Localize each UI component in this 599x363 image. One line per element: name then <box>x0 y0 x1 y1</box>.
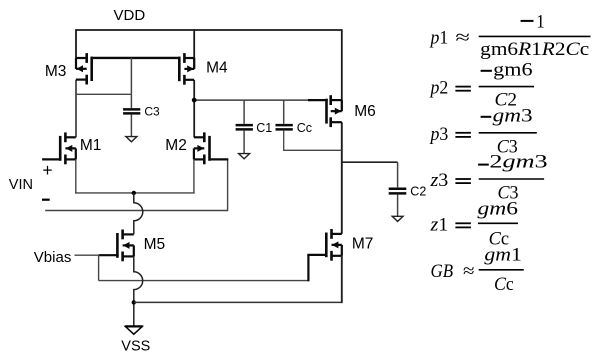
svg-text:M3: M3 <box>45 63 67 80</box>
wire minus line up to M2 gate <box>227 159 229 211</box>
wire M6 gate lead <box>308 99 328 101</box>
svg-text:Cc: Cc <box>494 274 514 295</box>
equation p2 <box>429 60 534 111</box>
svg-text:gm6: gm6 <box>478 198 519 219</box>
wire M7 source down <box>341 256 343 303</box>
svg-text:C3: C3 <box>144 104 160 118</box>
svg-text:z1: z1 <box>429 214 448 235</box>
wire Cc bottom lead to output <box>284 131 342 151</box>
svg-text:VIN: VIN <box>9 177 33 193</box>
wire M5 source down with hop <box>134 256 143 326</box>
node A junction <box>192 98 197 103</box>
wire M3 drain to gate link <box>76 93 132 95</box>
capacitor C2 <box>389 189 407 194</box>
svg-text:Vbias: Vbias <box>34 249 72 266</box>
label M1 <box>80 137 102 154</box>
ground VSS symbol <box>125 326 143 334</box>
svg-text:gm6: gm6 <box>493 60 532 81</box>
label C1 <box>256 121 272 135</box>
svg-text:p3: p3 <box>429 124 449 145</box>
wire Vbias branch down <box>98 255 100 281</box>
wire M4 source rail to VDD <box>193 29 195 69</box>
wire Vbias line to M7 <box>99 280 309 282</box>
label C2 <box>410 184 426 198</box>
transistor M6 <box>327 95 342 127</box>
svg-text:2gm3: 2gm3 <box>489 151 547 172</box>
svg-text:C1: C1 <box>256 121 272 135</box>
capacitor Cc <box>276 125 293 129</box>
wire tail line <box>75 192 195 194</box>
equation z1 <box>429 198 518 249</box>
svg-text:VSS: VSS <box>121 338 150 354</box>
capacitor C3 <box>123 109 140 113</box>
label Vbias <box>34 249 72 266</box>
svg-text:z3: z3 <box>429 170 448 191</box>
label M4 <box>206 60 228 77</box>
wire second stage rail M6 drain to M7 drain <box>341 122 343 234</box>
wire VDD rail <box>76 29 342 31</box>
label M6 <box>354 103 376 120</box>
svg-text:M6: M6 <box>354 103 376 120</box>
wire node A line to M6 gate <box>194 99 326 101</box>
wire C1 top lead <box>243 100 245 124</box>
transistor M1 <box>60 132 76 164</box>
transistor M2 <box>194 132 210 164</box>
wire VSS line to M7 source <box>134 301 342 303</box>
svg-text:M2: M2 <box>165 137 187 154</box>
svg-text:1: 1 <box>536 12 545 33</box>
ground C2 open arrow <box>392 216 403 221</box>
svg-text:C2: C2 <box>410 184 426 198</box>
power VDD label <box>114 7 146 24</box>
wire M6 source rail to VDD <box>341 29 343 111</box>
svg-text:M7: M7 <box>352 236 374 253</box>
label VIN <box>9 177 33 193</box>
ground C1 open arrow <box>239 154 250 159</box>
wire C1 bottom lead <box>243 131 245 154</box>
transistor M5 <box>117 230 133 262</box>
svg-text:M4: M4 <box>206 60 228 77</box>
svg-text:≈: ≈ <box>463 261 475 282</box>
equation p3 <box>429 106 537 158</box>
svg-text:p1: p1 <box>429 27 449 48</box>
wire gate line down to C3 <box>130 58 132 108</box>
svg-text:M1: M1 <box>80 137 102 154</box>
capacitor C1 <box>236 125 253 129</box>
wire C2 bottom lead <box>397 195 399 217</box>
wire Vbias step up to M7 gate <box>307 255 327 281</box>
equation GB <box>431 244 524 295</box>
svg-text:≈: ≈ <box>455 27 470 48</box>
label Cc <box>297 121 312 135</box>
svg-text:p2: p2 <box>429 78 449 99</box>
wire C3 bottom lead <box>130 115 132 137</box>
transistor M3 <box>76 53 92 84</box>
svg-text:gm1: gm1 <box>484 244 521 265</box>
ground C3 open arrow <box>126 137 137 142</box>
wire output line <box>342 161 398 163</box>
wire M2 gate lead <box>211 158 229 160</box>
wire M5 gate lead <box>99 254 119 256</box>
svg-text:M5: M5 <box>144 236 166 253</box>
svg-text:GB: GB <box>431 261 454 282</box>
wire Vbias to M5 gate <box>75 254 101 256</box>
wire VIN plus lead to M1 gate <box>42 158 59 160</box>
svg-text:gm3: gm3 <box>493 106 533 127</box>
svg-text:VDD: VDD <box>114 7 146 24</box>
label M7 <box>352 236 374 253</box>
transistor M4 <box>179 53 194 85</box>
label minus input <box>42 199 50 201</box>
wire tail to M5 drain with hop <box>134 193 143 235</box>
wire M1 source down <box>75 159 77 193</box>
equation p1 <box>429 12 591 61</box>
label plus input <box>42 160 52 180</box>
svg-text:+: + <box>42 160 52 180</box>
wire C2 top lead <box>397 162 399 187</box>
svg-text:Cc: Cc <box>297 121 312 135</box>
label C3 <box>144 104 160 118</box>
label M5 <box>144 236 166 253</box>
node tail junction <box>132 191 136 195</box>
wire M3 gate to M4 gate <box>92 57 180 59</box>
label M3 <box>45 63 67 80</box>
wire Cc top lead <box>283 100 285 124</box>
wire M3 drain rail down to M1 drain <box>75 80 77 138</box>
power VSS label <box>121 338 150 354</box>
wire M4 drain rail to node A and M2 drain <box>193 80 195 137</box>
wire M2 source down <box>193 159 195 193</box>
wire VIN minus line <box>45 210 227 212</box>
equation z3 <box>429 151 547 203</box>
transistor M7 <box>326 229 342 261</box>
node VSS junction <box>132 300 136 304</box>
svg-text:gm6R1R2Cc: gm6R1R2Cc <box>480 39 589 60</box>
label M2 <box>165 137 187 154</box>
wire M3 source rail to VDD <box>75 29 77 69</box>
